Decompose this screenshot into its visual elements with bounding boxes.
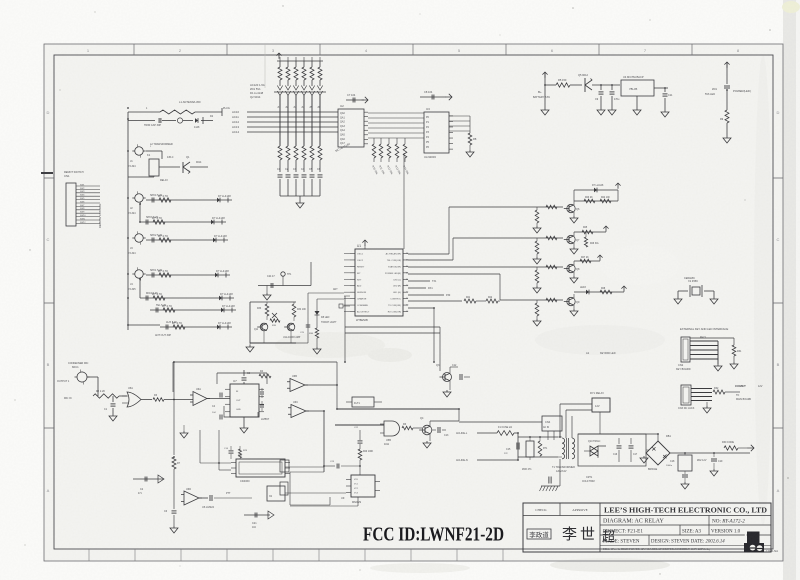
resistor R30 output <box>724 446 738 450</box>
wire IC2 to MCU <box>403 153 405 249</box>
ground near bridge <box>646 449 649 451</box>
mic wiring <box>87 376 98 378</box>
scan crease <box>264 44 266 88</box>
MCU vertical feed wires <box>433 308 435 362</box>
caps right of U7 <box>261 388 263 391</box>
wires to MCU left <box>308 292 344 294</box>
wires into U8 <box>199 430 201 463</box>
capacitor C25 column <box>296 342 308 344</box>
feedback loop inner <box>217 372 267 374</box>
regulator U4 78L05 <box>621 80 654 96</box>
connector CN3 <box>681 385 691 405</box>
title block <box>523 503 771 552</box>
crystal X2 box <box>267 486 285 501</box>
resistor R34 <box>292 304 296 317</box>
capacitor C3 <box>243 370 245 376</box>
transistor Q5 <box>584 78 586 92</box>
driver row D transistor Q9 <box>536 299 563 301</box>
IC U9 <box>351 475 375 497</box>
resistor R3 <box>153 398 164 402</box>
varistor ZNR <box>526 441 534 457</box>
triac Q10 <box>590 446 598 456</box>
capacitor C9 <box>600 85 602 90</box>
op-amp U6A <box>193 392 207 406</box>
aux boxes <box>280 460 289 472</box>
horizontal bus AC lines <box>247 111 338 113</box>
ground at C24 <box>266 286 268 294</box>
capacitor C23 <box>324 465 335 467</box>
op-amp U6D <box>184 491 199 505</box>
chain row6 <box>149 308 151 310</box>
IC U7 LM567 <box>230 384 259 417</box>
resistor R31 <box>690 337 734 339</box>
wires to relay <box>559 404 561 437</box>
wire <box>570 84 582 86</box>
pull-down resistors under bus <box>373 138 375 144</box>
diode cross D9 <box>272 313 277 318</box>
transistor Q11 <box>260 323 268 331</box>
transistor Q12 <box>287 323 295 331</box>
connector CN1 remote switch <box>66 183 76 226</box>
chassis ground <box>559 459 561 486</box>
MCU output routing wires <box>408 253 449 255</box>
wires to transformer <box>518 436 558 438</box>
fuse F1 <box>497 431 514 436</box>
gate U5B <box>335 424 384 426</box>
capacitor C15 across line <box>517 433 519 460</box>
resistor R5 <box>556 83 570 87</box>
op-amp U6C <box>291 405 306 418</box>
resistor R32 comet line <box>713 390 725 394</box>
chain row4a <box>146 239 228 241</box>
IC U3 driver <box>424 112 449 153</box>
row1 tuning chain <box>128 120 155 122</box>
capacitor C21 <box>244 514 270 516</box>
resistor R4 <box>259 374 271 378</box>
gate U5A <box>127 392 141 407</box>
analog routing wires <box>336 362 338 385</box>
power stage outline <box>578 434 646 466</box>
MCU left stubs <box>344 253 350 255</box>
driver row A transistor Q6 <box>536 206 563 208</box>
resistor bank RN1 pull-ups <box>277 60 323 62</box>
capacitor C8 <box>420 96 446 98</box>
resistor R20 string <box>359 430 361 440</box>
driver row C transistor Q8 <box>536 266 563 268</box>
cap C14 res R29 <box>230 446 232 450</box>
chain row5b <box>139 279 141 298</box>
capacitors C4 C5 <box>219 393 221 398</box>
relay RY1 <box>592 398 610 412</box>
ground mid <box>180 431 188 438</box>
DC output wire <box>670 452 750 454</box>
driver row B transistor Q7 <box>536 237 563 239</box>
lower feedback loop <box>224 406 258 417</box>
scan specks <box>572 7 574 9</box>
jack J4 <box>135 270 143 278</box>
transistor Q4 <box>422 425 432 435</box>
capacitor C11 <box>664 88 666 92</box>
interbox wires <box>285 466 324 468</box>
junction dots <box>127 107 129 109</box>
microphone MIC1 <box>77 372 87 382</box>
capacitor C2 input <box>133 478 164 480</box>
chain row3a <box>146 199 232 201</box>
crystal X1 <box>678 290 688 292</box>
LED torch branch <box>316 299 318 311</box>
connector CN4 AC <box>542 416 562 431</box>
relay K1 <box>146 150 162 152</box>
left vertical bus <box>127 112 129 330</box>
inductor L1 antenna row <box>128 111 160 113</box>
jack J2 <box>135 194 143 202</box>
capacitor C10 <box>611 85 613 90</box>
relay to power wire <box>599 412 601 434</box>
bus wires IC1 to IC2 <box>368 112 424 114</box>
capacitor C1 <box>112 396 114 402</box>
capacitor C17 <box>630 438 632 444</box>
chain row7 <box>128 324 160 326</box>
chain row5a <box>146 274 230 276</box>
bridge rectifier DB1 <box>646 441 670 465</box>
ground under resistor bank <box>280 195 320 197</box>
resistor R35 <box>270 319 280 322</box>
transformer T1 <box>562 438 565 459</box>
capacitor C7 bypass <box>346 99 364 101</box>
wire pair to Q3 <box>345 326 440 328</box>
capacitor C16 <box>618 438 620 444</box>
wire <box>592 84 620 86</box>
test point TP1 <box>281 272 285 276</box>
thermistor RT1 <box>538 441 542 456</box>
resistor R33 <box>265 304 269 316</box>
bridge top wire <box>657 434 659 441</box>
MCU U1 <box>355 249 403 316</box>
transistor Q1 <box>182 162 184 173</box>
capacitor C18 reservoir <box>678 455 692 471</box>
coupling cap C24 wire <box>258 285 311 287</box>
power LED branch <box>724 62 729 68</box>
feedback loop top wire <box>173 361 337 363</box>
op-amp U6B <box>290 379 305 392</box>
resistor R2 <box>93 394 119 398</box>
capacitor C19 zener <box>713 453 715 457</box>
bottom return wire <box>290 504 330 506</box>
battery input node B+ <box>542 72 547 78</box>
wire <box>290 471 324 473</box>
chain row3b <box>139 204 141 222</box>
resistor R6 <box>402 426 413 430</box>
audio amp rails <box>250 301 296 303</box>
transistor Q3 <box>443 373 452 382</box>
connector CN2 keyboard <box>681 337 690 362</box>
jack J1 <box>135 147 143 155</box>
jack J3 <box>135 234 143 242</box>
filter FLT1 box <box>352 397 374 407</box>
IC U8 CD4060 <box>236 459 285 477</box>
resistor R7 capacitor C6 string <box>173 362 175 455</box>
IC U2 74HC164 <box>338 109 364 147</box>
resistor R8 to ground <box>449 115 470 117</box>
